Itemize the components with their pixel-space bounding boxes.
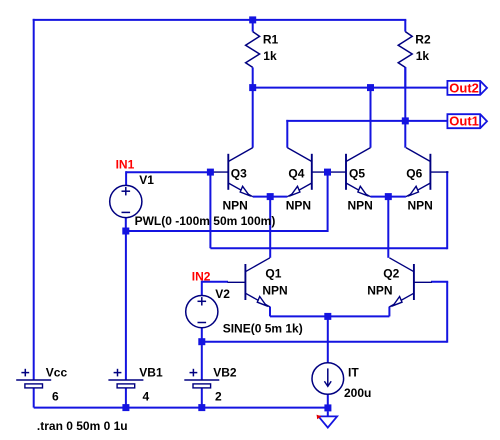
wire VB2 column	[201, 342, 203, 380]
junction node (405.3,120.9)	[402, 117, 409, 124]
svg-text:VB1: VB1	[139, 366, 163, 380]
svg-text:Q4: Q4	[288, 166, 304, 180]
junction node (327.9,407.9)	[324, 404, 331, 411]
wire IT bottom to ground	[327, 394, 329, 411]
voltage source V1	[110, 185, 142, 217]
current source IT	[312, 363, 344, 395]
svg-text:V1: V1	[139, 173, 154, 187]
svg-text:Q5: Q5	[349, 166, 365, 180]
wire Q1 emitter bend	[269, 307, 271, 317]
svg-text:6: 6	[52, 390, 59, 404]
wire Vcc bottom stub	[33, 388, 35, 408]
svg-text:1k: 1k	[416, 49, 430, 63]
junction node (201.8,407.6)	[198, 404, 205, 411]
svg-text:R2: R2	[415, 32, 431, 46]
junction node (252.7,87.6)	[249, 84, 256, 91]
svg-text:VB2: VB2	[213, 366, 237, 380]
wire Q2 base horizontal	[431, 281, 448, 283]
wire V1 minus to Q4 Q5 bases	[126, 230, 328, 232]
transistor Q2	[367, 258, 432, 307]
junction node (388.3,196.6)	[385, 193, 392, 200]
svg-text:SINE(0 5m 1k): SINE(0 5m 1k)	[223, 322, 303, 336]
wire up to base junction	[327, 172, 329, 232]
port flag Out2	[447, 80, 487, 95]
junction node (327.8,316.4)	[324, 313, 331, 320]
svg-text:IN1: IN1	[116, 158, 135, 172]
wire common emitter down to Q2 collector	[387, 197, 389, 258]
wire VB2 bottom stub	[201, 388, 203, 408]
svg-text:V2: V2	[215, 287, 230, 301]
wire VB1 column	[125, 231, 127, 380]
svg-text:200u: 200u	[344, 386, 371, 400]
junction node (210.4,172.1)	[207, 169, 214, 176]
wire Q5 collector column	[370, 88, 372, 148]
wire top supply rail	[33, 19, 407, 21]
transistor Q5	[328, 148, 373, 213]
svg-text:Out2: Out2	[449, 80, 479, 95]
svg-text:.tran 0 50m 0 1u: .tran 0 50m 0 1u	[37, 419, 128, 433]
transistor Q3	[210, 148, 253, 213]
wire IN1 up to Q6 base	[446, 171, 448, 249]
transistor Q4	[286, 148, 330, 213]
wire IN1 cross to right	[210, 247, 447, 249]
svg-text:Out1: Out1	[449, 114, 479, 129]
wire Q4 collector column	[286, 120, 288, 148]
junction node (327.5,172.1)	[324, 169, 331, 176]
svg-text:Q2: Q2	[383, 266, 399, 280]
voltage source V2	[186, 296, 218, 328]
resistor R1	[246, 20, 279, 88]
wire V2 bottom stub	[201, 328, 203, 342]
wire IN1 vertical down	[209, 172, 211, 248]
ground	[317, 412, 338, 428]
wire left Vcc vertical	[33, 19, 35, 380]
svg-text:NPN: NPN	[262, 284, 287, 298]
svg-text:Q3: Q3	[231, 166, 247, 180]
svg-text:1k: 1k	[263, 49, 277, 63]
svg-text:Q1: Q1	[265, 266, 281, 280]
svg-text:2: 2	[215, 390, 222, 404]
svg-text:IT: IT	[348, 365, 359, 379]
wire R2 column through Out2 row	[404, 67, 406, 121]
resistor R2	[398, 20, 431, 88]
wire Q2 emitter bend	[388, 307, 390, 317]
wire IN2 V2 to Q1 base	[202, 281, 228, 283]
wire V1 bottom stub	[125, 218, 127, 231]
junction node (201.8,341.7)	[198, 338, 205, 345]
wire Q6 base corner stub	[446, 171, 448, 173]
junction node (125.8,231.0)	[122, 228, 129, 235]
wire Q5 Q6 emitter bridge	[371, 196, 406, 198]
svg-text:4: 4	[143, 390, 150, 404]
svg-text:NPN: NPN	[348, 198, 373, 212]
svg-text:NPN: NPN	[286, 198, 311, 212]
svg-text:NPN: NPN	[408, 198, 433, 212]
svg-text:PWL(0 -100m 50m 100m): PWL(0 -100m 50m 100m)	[135, 214, 276, 228]
transistor Q6	[406, 148, 449, 213]
wire R1 column to Q3 collector	[252, 88, 254, 148]
voltage source VB1 (battery)	[108, 366, 163, 404]
svg-text:Vcc: Vcc	[46, 366, 68, 380]
wire Out2 row	[252, 87, 448, 89]
voltage source VB2 (battery)	[184, 366, 237, 404]
svg-text:NPN: NPN	[367, 284, 392, 298]
wire Q3 Q4 emitter bridge	[253, 196, 287, 198]
wire VB1 bottom stub	[125, 388, 127, 408]
wire bottom ground rail	[34, 407, 328, 409]
wire up to Q2 base corner	[446, 282, 448, 343]
wire Q1 Q2 emitter bridge	[270, 315, 389, 317]
wire V2 minus row to right	[202, 341, 447, 343]
wire IN1 horizontal V1 to Q3 base	[126, 171, 210, 173]
wire V1 top stub	[125, 171, 127, 185]
junction node (252.7,19.9)	[249, 16, 256, 23]
junction node (125.9,407.6)	[122, 404, 129, 411]
svg-text:IN2: IN2	[192, 270, 211, 284]
voltage source Vcc (battery)	[16, 366, 67, 404]
wire Q6 collector column	[404, 121, 406, 148]
svg-text:R1: R1	[263, 32, 279, 46]
junction node (370.5,87.6)	[367, 84, 374, 91]
wire Out1 row	[286, 120, 447, 122]
wire IT top	[327, 316, 329, 362]
port flag Out1	[447, 114, 487, 129]
transistor Q1	[227, 258, 287, 307]
wire common emitter down to Q1 collector	[269, 197, 271, 258]
svg-text:Q6: Q6	[406, 166, 422, 180]
wire V2 top stub	[201, 281, 203, 296]
junction node (270.2,196.6)	[267, 193, 274, 200]
svg-text:NPN: NPN	[223, 198, 248, 212]
